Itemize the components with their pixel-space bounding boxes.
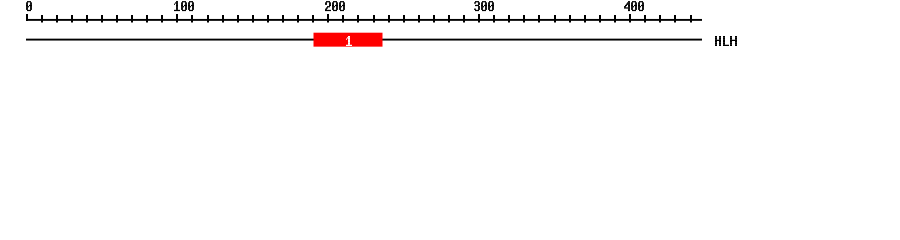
minor tick 140 xyxy=(237,15,239,23)
minor tick 280 xyxy=(448,15,450,23)
major tick 200 xyxy=(327,14,329,23)
minor tick 170 xyxy=(282,15,284,23)
minor tick 110 xyxy=(191,15,193,23)
major tick 400 xyxy=(629,14,631,23)
ruler label 200 xyxy=(325,1,345,11)
minor tick 190 xyxy=(312,15,314,23)
minor tick 350 xyxy=(554,15,556,23)
minor tick 320 xyxy=(508,15,510,23)
minor tick 230 xyxy=(373,15,375,23)
minor tick 40 xyxy=(86,15,88,23)
sequence line xyxy=(26,39,702,41)
minor tick 120 xyxy=(207,15,209,23)
ruler label 0 xyxy=(26,1,32,11)
major tick 300 xyxy=(478,14,480,23)
domain box match 1 (HLH) xyxy=(314,33,383,47)
minor tick 360 xyxy=(569,15,571,23)
minor tick 290 xyxy=(463,15,465,23)
ruler label 100 xyxy=(174,1,194,11)
minor tick 50 xyxy=(101,15,103,23)
minor tick 240 xyxy=(388,15,390,23)
minor tick 250 xyxy=(403,15,405,23)
minor tick 310 xyxy=(493,15,495,23)
minor tick 380 xyxy=(599,15,601,23)
minor tick 440 xyxy=(690,15,692,23)
minor tick 260 xyxy=(418,15,420,23)
minor tick 10 xyxy=(41,15,43,23)
minor tick 130 xyxy=(222,15,224,23)
minor tick 220 xyxy=(357,15,359,23)
minor tick 180 xyxy=(297,15,299,23)
minor tick 60 xyxy=(116,15,118,23)
minor tick 410 xyxy=(644,15,646,23)
minor tick 90 xyxy=(161,15,163,23)
domain box number 1 xyxy=(346,36,352,46)
minor tick 270 xyxy=(433,15,435,23)
domain name label HLH xyxy=(715,36,737,46)
minor tick 210 xyxy=(342,15,344,23)
minor tick 420 xyxy=(659,15,661,23)
minor tick 30 xyxy=(71,15,73,23)
minor tick 80 xyxy=(146,15,148,23)
minor tick 330 xyxy=(523,15,525,23)
minor tick 370 xyxy=(584,15,586,23)
major tick 100 xyxy=(176,14,178,23)
minor tick 150 xyxy=(252,15,254,23)
minor tick 70 xyxy=(131,15,133,23)
minor tick 160 xyxy=(267,15,269,23)
minor tick 20 xyxy=(56,15,58,23)
ruler label 300 xyxy=(474,1,494,11)
minor tick 390 xyxy=(614,15,616,23)
minor tick 340 xyxy=(538,15,540,23)
major tick 0 xyxy=(26,14,28,21)
ruler axis line xyxy=(26,19,702,21)
minor tick 430 xyxy=(674,15,676,23)
ruler label 400 xyxy=(624,1,644,11)
